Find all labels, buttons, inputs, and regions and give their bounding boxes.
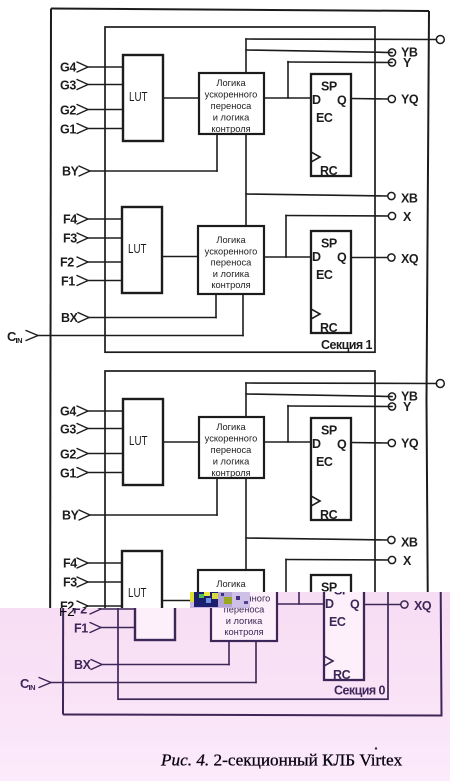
scan speck above Virtex — [375, 747, 377, 749]
editing-noise artifact patch — [190, 592, 250, 608]
pink selection overlay background — [0, 592, 450, 781]
figure caption — [160, 751, 403, 770]
svg-text:Рис. 4. 2-секционный КЛБ Virte: Рис. 4. 2-секционный КЛБ Virtex — [160, 751, 403, 770]
